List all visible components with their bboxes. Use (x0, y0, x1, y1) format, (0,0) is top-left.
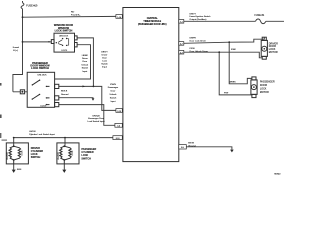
svg-text:UNLOCK: UNLOCK (7, 151, 9, 159)
svg-text:Fused Ignition Switch: Fused Ignition Switch (190, 15, 212, 18)
driver door lock motor (261, 37, 267, 59)
wire M1: BK/LB ground wire to module (59, 86, 116, 110)
svg-text:Door: Door (82, 60, 87, 63)
svg-text:TIMER MODULE: TIMER MODULE (143, 21, 161, 23)
svg-text:Cylinder Lock Switch Input: Cylinder Lock Switch Input (29, 133, 55, 136)
svg-text:Ground: Ground (61, 93, 69, 96)
passenger door lock motor (251, 77, 257, 98)
pin R2 (179, 42, 184, 46)
svg-text:G303: G303 (17, 169, 21, 171)
svg-text:LOCK: LOCK (22, 150, 24, 156)
junction: V2 joins wire M1 (93, 86, 95, 88)
wire M2: passenger switch middle output (59, 97, 93, 100)
junction: passenger cylinder drop (64, 137, 66, 139)
svg-text:Unlock: Unlock (110, 94, 118, 96)
arrow marker on M1 (83, 85, 86, 87)
junction: trunk / fused B+ wire (22, 16, 24, 18)
svg-text:Input: Input (102, 65, 107, 68)
text block TB2: driver door lock switch input (101, 51, 108, 68)
svg-text:LOCK SWITCH: LOCK SWITCH (55, 29, 73, 32)
svg-text:CENTRAL: CENTRAL (147, 17, 159, 20)
resistor coil right (64, 146, 71, 160)
module pin connectors (113, 15, 186, 149)
central timer module box U1 (123, 8, 179, 162)
resistor coil left (60, 146, 65, 160)
left edge scan marks (0, 83, 2, 86)
junction: unlock driver branch (218, 51, 220, 53)
driver door window lock switch box (51, 33, 77, 52)
ground arrow (module BK/W) (230, 150, 234, 153)
text block TB4: passenger door lock switch output (87, 115, 105, 123)
svg-text:SWITCH: SWITCH (81, 157, 91, 160)
wire: power trunk vertical (13, 1, 23, 92)
wire: drop to passenger cylinder switch (64, 138, 66, 147)
svg-text:Output (Run/Acc): Output (Run/Acc) (190, 18, 207, 21)
text block TB1: driver door unlock switch input (81, 55, 89, 73)
svg-text:Door: Door (102, 56, 107, 59)
pin L2 (116, 109, 122, 113)
svg-text:Fused B+: Fused B+ (71, 15, 81, 17)
pin L3 (115, 123, 122, 127)
resistor coil left (9, 146, 14, 160)
wire: driver switch top-right output down (77, 38, 93, 87)
svg-text:UNLOCK: UNLOCK (37, 75, 47, 77)
wire: trunk bottom to passenger window lock switch (13, 91, 27, 93)
wire: driver cylinder switch to ground (13, 164, 15, 170)
svg-text:BK/LB: BK/LB (61, 91, 68, 93)
wire: branch to passenger motor top (229, 42, 252, 84)
svg-text:OR/QG: OR/QG (92, 115, 100, 117)
svg-text:Switch: Switch (101, 62, 108, 65)
fuse F1 (top-right squiggle) (256, 19, 266, 24)
svg-text:LOCK SWITCH: LOCK SWITCH (31, 67, 49, 70)
svg-text:BK/W: BK/W (188, 143, 195, 145)
junction: lock driver branch (228, 41, 230, 43)
svg-text:8-10: 8-10 (116, 138, 120, 140)
svg-text:Ground: Ground (188, 144, 196, 147)
svg-text:LOCK: LOCK (61, 50, 67, 52)
wire: module right pin1 to fuse1 and right edge (184, 20, 284, 22)
svg-text:LOCK: LOCK (40, 105, 46, 107)
wire: fused B+ to module top-left pin (23, 15, 116, 18)
wire: door lock driver to driver motor (184, 37, 265, 43)
svg-text:P/BK: P/BK (231, 49, 237, 51)
wire: drop to driver cylinder switch (13, 138, 15, 147)
svg-text:LOCK: LOCK (72, 150, 74, 156)
wire: module ground BK/W (186, 147, 232, 150)
wire: door unlock driver to driver motor bottom (184, 52, 263, 58)
svg-text:Unlock: Unlock (81, 64, 89, 66)
svg-text:Input: Input (82, 70, 87, 73)
svg-text:Door Lock Driver: Door Lock Driver (190, 39, 207, 42)
wire: cylinder lock switch input run (14, 137, 113, 139)
svg-text:Fused: Fused (13, 47, 20, 49)
wire: driver switch bottom-right output down (55, 45, 91, 79)
svg-text:Door: Door (111, 90, 116, 93)
fuse F19 (top-left fuse squiggle) (21, 3, 24, 9)
svg-text:(PASSENGER DOOR JBC): (PASSENGER DOOR JBC) (138, 23, 167, 26)
svg-text:SWITCH: SWITCH (31, 156, 41, 159)
svg-text:8-5: 8-5 (181, 147, 184, 149)
ground arrow (driver cylinder) (12, 170, 16, 173)
svg-text:2-1: 2-1 (180, 22, 183, 24)
ground arrow (passenger cylinder) (62, 170, 66, 173)
svg-text:FUSE #1: FUSE #1 (255, 14, 265, 17)
junction: trunk / driver switch feed (22, 41, 24, 43)
svg-text:MOTOR: MOTOR (260, 91, 269, 94)
svg-text:UNLOCK: UNLOCK (58, 151, 60, 159)
pin R4 (179, 145, 187, 149)
svg-text:Input: Input (111, 100, 116, 103)
svg-text:Driver: Driver (102, 53, 108, 56)
svg-text:LB/BK: LB/BK (82, 55, 89, 57)
wire: branch to passenger motor bottom (219, 52, 252, 95)
svg-text:DB/PK: DB/PK (190, 38, 197, 40)
svg-text:4-2: 4-2 (180, 44, 183, 46)
svg-text:OR/BK: OR/BK (229, 82, 236, 84)
passenger cylinder lock switch box (57, 143, 79, 164)
text block TB3: passenger door unlock switch input (108, 84, 119, 103)
svg-text:2-4: 2-4 (117, 126, 120, 128)
passenger door window lock switch box (20, 72, 59, 107)
svg-text:MOTOR: MOTOR (269, 51, 278, 54)
svg-text:Passenger: Passenger (108, 86, 119, 89)
pin R3 (179, 50, 184, 54)
svg-text:Switch: Switch (110, 96, 117, 99)
svg-text:1-14: 1-14 (117, 17, 121, 19)
svg-text:4-3: 4-3 (180, 53, 183, 55)
driver cylinder lock switch box (6, 143, 28, 164)
svg-text:RD: RD (71, 12, 75, 14)
svg-text:Switch: Switch (82, 67, 89, 70)
svg-text:Driver: Driver (82, 57, 88, 60)
pin L1 (116, 15, 122, 19)
wire: feed to driver window lock switch (23, 41, 52, 43)
junction: driver cylinder drop (13, 137, 15, 139)
svg-text:FUSE #19: FUSE #19 (26, 4, 38, 7)
wire M3: passenger lock switch output to module (59, 105, 115, 126)
svg-text:PW/N: PW/N (110, 84, 116, 86)
svg-text:Lock Switch Input: Lock Switch Input (87, 120, 105, 123)
arrow marker on M2 (continuation, points down) (92, 98, 95, 100)
svg-text:UNLOCK: UNLOCK (59, 35, 69, 37)
svg-text:2-18: 2-18 (117, 111, 121, 113)
svg-text:Passenger Door: Passenger Door (88, 117, 104, 120)
svg-text:Door Unlock Driver: Door Unlock Driver (190, 50, 209, 53)
svg-text:DB/VT: DB/VT (101, 51, 108, 53)
wire: passenger cylinder switch to ground (63, 164, 65, 170)
pin L4 (113, 136, 122, 140)
resistor coil right (14, 146, 21, 160)
svg-text:LB/OR: LB/OR (29, 131, 36, 133)
svg-text:90840: 90840 (274, 173, 281, 175)
svg-text:B (+): B (+) (13, 50, 18, 52)
pin R1 (179, 20, 184, 24)
